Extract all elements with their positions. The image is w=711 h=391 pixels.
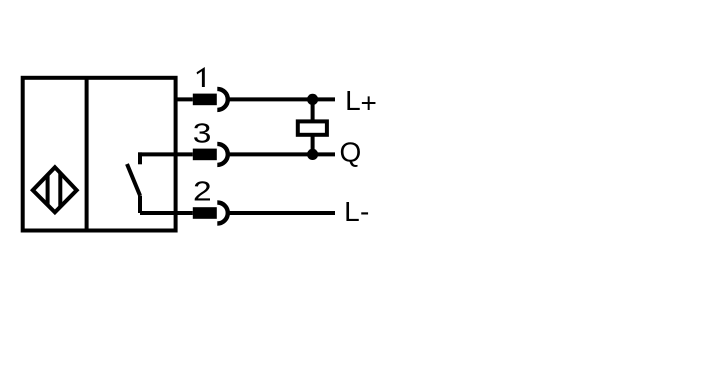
svg-text:3: 3	[193, 117, 212, 149]
svg-text:L: L	[345, 85, 361, 116]
svg-text:-: -	[360, 196, 369, 227]
svg-text:2: 2	[193, 175, 212, 207]
svg-text:+: +	[361, 88, 377, 119]
svg-text:L: L	[344, 196, 360, 227]
svg-text:Q: Q	[340, 137, 362, 168]
